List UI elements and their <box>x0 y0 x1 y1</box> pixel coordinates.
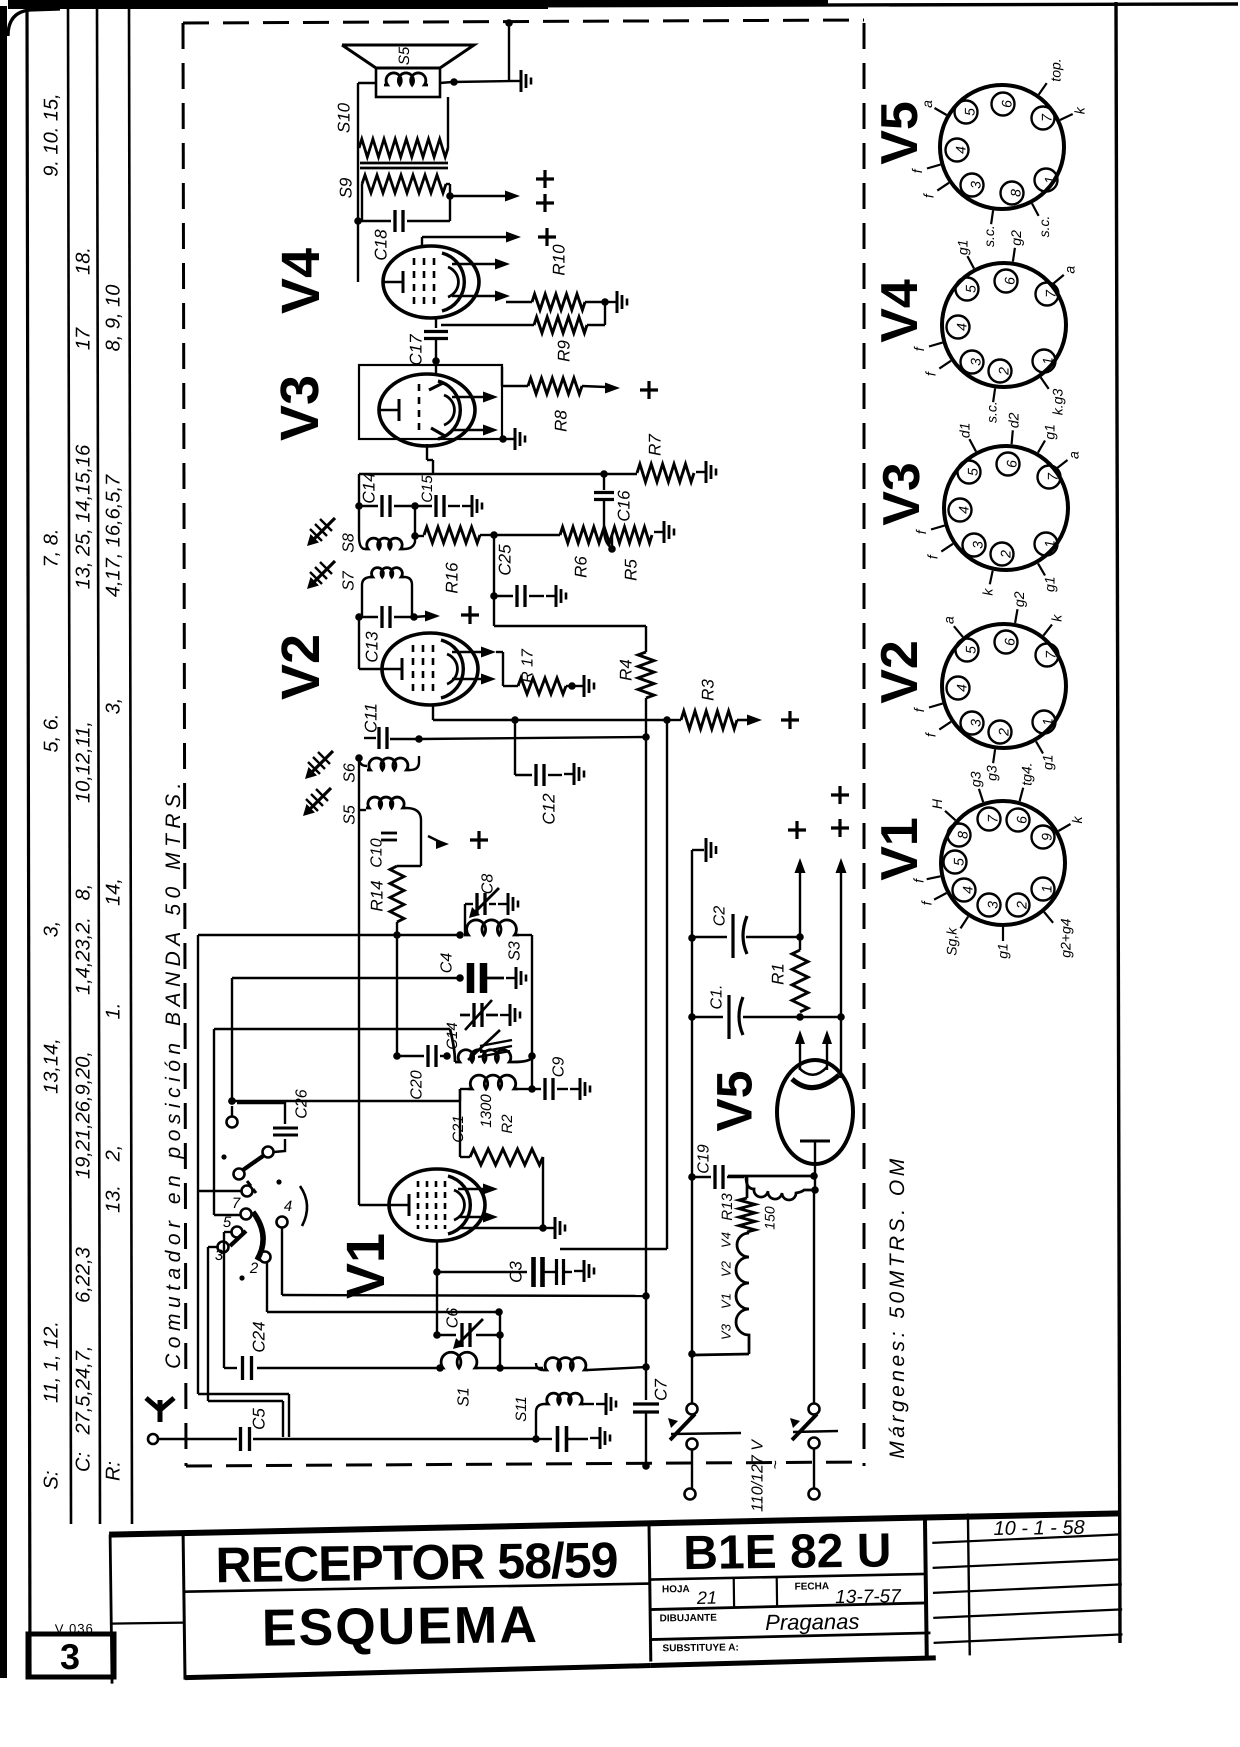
trimmer cap over S4 <box>460 1014 470 1017</box>
svg-text:1,4,23,2.: 1,4,23,2. <box>73 917 95 995</box>
ground C22 <box>590 1437 600 1439</box>
switch contact 3 <box>242 1186 253 1197</box>
svg-text:4: 4 <box>953 146 969 154</box>
svg-text:ESQUEMA: ESQUEMA <box>262 1596 540 1658</box>
arrow B+ R8 <box>605 383 620 394</box>
svg-text:2,: 2, <box>103 1145 125 1163</box>
svg-text:R13: R13 <box>719 1193 736 1221</box>
svg-text:V5: V5 <box>707 1070 763 1131</box>
svg-text:2: 2 <box>998 550 1014 559</box>
resistor R2 <box>470 1149 543 1165</box>
svg-text:C13: C13 <box>363 631 382 663</box>
band switch comutador <box>215 1089 310 1280</box>
svg-text:6: 6 <box>1002 277 1018 285</box>
ground R17 <box>574 685 584 687</box>
svg-text:C25: C25 <box>496 544 515 576</box>
svg-text:4: 4 <box>954 323 970 331</box>
svg-text:8: 8 <box>1008 189 1024 197</box>
right reference column <box>968 1513 970 1655</box>
V4 arrows to supply <box>452 263 498 266</box>
svg-text:C18: C18 <box>372 229 391 261</box>
svg-text:8, 9, 10: 8, 9, 10 <box>103 285 125 352</box>
svg-text:9: 9 <box>1039 833 1055 841</box>
mains switch 1 <box>687 1404 698 1415</box>
ground S4 trimmer <box>500 1014 510 1016</box>
svg-text:R14: R14 <box>368 880 387 911</box>
AVC wire long horizontal <box>359 473 637 475</box>
capacitor C4 <box>467 963 475 993</box>
svg-text:RECEPTOR 58/59: RECEPTOR 58/59 <box>215 1532 618 1593</box>
ground C12 <box>564 773 574 775</box>
svg-text:s.c.: s.c. <box>1036 216 1052 238</box>
svg-text:13-7-57: 13-7-57 <box>835 1586 902 1608</box>
B+ arrow left <box>799 870 801 937</box>
svg-text:Praganas: Praganas <box>765 1609 860 1635</box>
ground C3 <box>574 1270 584 1272</box>
ground C25 <box>546 595 556 597</box>
svg-text:13.: 13. <box>103 1185 125 1213</box>
svg-text:V4: V4 <box>271 248 331 314</box>
svg-text:C19: C19 <box>695 1144 712 1173</box>
svg-text:C12: C12 <box>540 793 559 825</box>
svg-text:5, 6.: 5, 6. <box>41 714 63 753</box>
wire top junction to ground <box>505 19 513 27</box>
svg-text:7: 7 <box>232 1195 241 1212</box>
svg-text:g2: g2 <box>1008 230 1024 246</box>
svg-text:C9: C9 <box>550 1057 567 1078</box>
svg-text:V2: V2 <box>271 634 331 700</box>
svg-text:21: 21 <box>696 1588 717 1608</box>
tube V1 <box>389 1169 485 1241</box>
svg-text:a: a <box>1062 266 1078 274</box>
svg-text:13,14,: 13,14, <box>41 1038 63 1094</box>
svg-text:6,22,3: 6,22,3 <box>73 1247 95 1303</box>
sheet left edge black strip <box>0 6 7 1678</box>
tube V3 <box>379 374 475 446</box>
svg-text:1.: 1. <box>103 1003 125 1020</box>
svg-text:g2: g2 <box>1011 591 1027 607</box>
arrow B+ R3 <box>747 715 762 726</box>
ground C4 <box>506 977 516 979</box>
svg-text:g3: g3 <box>983 765 999 781</box>
V3 cathode ground <box>499 435 507 443</box>
parts table column line 3 <box>129 7 132 1524</box>
trimmer arrow S7 <box>311 561 335 585</box>
arrow B+ V4 plate <box>506 232 521 243</box>
svg-text:6: 6 <box>1004 460 1020 468</box>
svg-text:C15: C15 <box>419 475 436 503</box>
scan edge artifact top <box>8 0 548 9</box>
svg-text:C7: C7 <box>652 1379 671 1401</box>
svg-text:S5: S5 <box>396 46 413 65</box>
svg-text:C24: C24 <box>250 1321 269 1352</box>
wire left of voice coil down <box>358 82 376 84</box>
svg-text:2: 2 <box>996 728 1012 737</box>
V1 cathode ground <box>460 1227 543 1229</box>
switch wiper arc <box>253 1212 263 1260</box>
B+ arrow right <box>840 870 842 1017</box>
svg-text:C20: C20 <box>408 1070 425 1099</box>
antenna symbol <box>146 1398 174 1422</box>
svg-text:110/127 V: 110/127 V <box>749 1439 766 1512</box>
iron core S4 <box>480 1040 512 1046</box>
svg-text:S6: S6 <box>341 763 358 783</box>
svg-text:C14: C14 <box>360 472 379 503</box>
title block bottom bar <box>185 1666 651 1678</box>
V5 filament <box>800 1140 830 1143</box>
capacitor C22 <box>536 1438 552 1440</box>
svg-text:k: k <box>1069 816 1085 824</box>
svg-text:5: 5 <box>963 285 979 293</box>
svg-text:SUBSTITUYE A:: SUBSTITUYE A: <box>662 1642 738 1654</box>
plus sign V4 plate <box>538 235 556 238</box>
svg-text:3,: 3, <box>41 921 63 938</box>
svg-text:g1: g1 <box>995 943 1011 959</box>
ground R10 R9 <box>607 301 617 303</box>
supply wire to R3 <box>433 719 667 721</box>
switch contact 1 <box>263 1147 274 1158</box>
svg-text:1: 1 <box>1040 357 1056 365</box>
title box receptor <box>649 1522 651 1662</box>
svg-text:11, 1, 12.: 11, 1, 12. <box>41 1321 63 1403</box>
parts table column line 2 <box>97 7 100 1524</box>
svg-text:g1: g1 <box>1040 754 1056 770</box>
speaker voice coil box <box>376 68 440 97</box>
svg-text:7, 8.: 7, 8. <box>41 529 63 568</box>
wire S9 to B+ arrow <box>450 195 508 198</box>
ground S12 <box>596 1403 606 1405</box>
svg-text:3: 3 <box>215 1247 224 1264</box>
hoja fecha row <box>650 1603 926 1610</box>
svg-text:1300: 1300 <box>478 1094 495 1128</box>
wire V4 plate to B+ arrow <box>421 237 423 247</box>
svg-text:5: 5 <box>223 1214 232 1231</box>
switch wires <box>198 1190 241 1192</box>
antenna terminal <box>148 1434 158 1444</box>
sheet border top line <box>27 4 1238 7</box>
svg-text:a: a <box>1065 451 1081 459</box>
bus vertical right B <box>645 737 647 1296</box>
svg-text:R5: R5 <box>622 559 641 581</box>
svg-text:S3: S3 <box>506 941 523 961</box>
wire grid V1 <box>232 1100 460 1102</box>
V5 anode arrows <box>799 1040 801 1070</box>
svg-text:C16: C16 <box>615 490 634 522</box>
svg-text:S1: S1 <box>455 1387 472 1407</box>
plus sign R8 <box>640 388 658 391</box>
svg-text:R4: R4 <box>617 659 636 681</box>
svg-text:1: 1 <box>1040 718 1056 726</box>
svg-text:R3: R3 <box>699 679 718 701</box>
sheet border right line <box>1116 2 1120 1643</box>
svg-text:2: 2 <box>249 1260 259 1277</box>
dibujante row <box>650 1633 930 1640</box>
svg-text:6: 6 <box>1014 816 1030 824</box>
wire to bus <box>419 737 646 739</box>
svg-text:s.c.: s.c. <box>981 225 997 247</box>
coil S12 <box>536 1404 545 1439</box>
svg-text:HOJA: HOJA <box>662 1584 690 1595</box>
trimmer arrow S6 <box>309 751 333 775</box>
wire band C <box>214 1028 450 1030</box>
svg-text:g3: g3 <box>967 771 983 787</box>
svg-text:C8: C8 <box>479 874 496 895</box>
svg-text:R10: R10 <box>550 244 569 276</box>
ground heater bus <box>692 849 704 851</box>
voice coil winding <box>384 73 428 85</box>
switch contact 4 <box>241 1209 252 1220</box>
svg-text:5: 5 <box>965 468 981 476</box>
tube V4 <box>383 246 479 318</box>
svg-text:C5: C5 <box>250 1408 269 1430</box>
arrow plus C13 <box>414 616 428 617</box>
svg-text:14,: 14, <box>103 878 125 906</box>
svg-text:5: 5 <box>962 108 978 116</box>
svg-text:k: k <box>1049 614 1065 622</box>
switch contact 2 <box>234 1169 245 1180</box>
svg-text:8: 8 <box>955 831 971 839</box>
svg-text:tg4.: tg4. <box>1018 762 1034 785</box>
mains switch 2 <box>809 1404 820 1415</box>
svg-text:R6: R6 <box>572 556 591 578</box>
ground C8 <box>498 903 508 905</box>
svg-text:V2: V2 <box>718 1260 733 1277</box>
svg-text:g1: g1 <box>1042 424 1058 440</box>
wire band A <box>198 934 460 936</box>
ground R5 <box>654 531 664 533</box>
arrow B+ top <box>505 191 520 202</box>
svg-text:R1: R1 <box>769 963 788 985</box>
ground C15 <box>462 505 472 507</box>
svg-text:13, 25, 14,15,16: 13, 25, 14,15,16 <box>73 444 95 589</box>
V2 arrows <box>452 651 484 654</box>
svg-text:g1: g1 <box>1042 576 1058 592</box>
wire V3 to AVC line <box>426 444 428 460</box>
trimmer arrow S8 <box>311 518 335 542</box>
switch index arc <box>300 1186 307 1226</box>
svg-text:150: 150 <box>762 1206 778 1230</box>
bus B down to C7 <box>645 1296 647 1400</box>
svg-text:S8: S8 <box>340 533 357 553</box>
heater bus vertical <box>691 850 693 1404</box>
svg-text:B1E 82 U: B1E 82 U <box>683 1524 892 1580</box>
svg-text:FECHA: FECHA <box>795 1581 830 1592</box>
V5 cathode line down <box>813 1190 815 1404</box>
switch wiper blade 1 <box>243 1156 263 1170</box>
svg-text:V5: V5 <box>871 101 929 165</box>
V 036 sheet number box <box>28 1634 114 1677</box>
switch contact 6 <box>218 1242 229 1253</box>
V3 arrows <box>452 396 486 399</box>
svg-text:d2: d2 <box>1005 412 1021 428</box>
svg-text:R16: R16 <box>443 562 462 594</box>
svg-text:9. 10. 15,: 9. 10. 15, <box>41 93 63 176</box>
title block top bar <box>109 1513 1121 1534</box>
svg-text:C26: C26 <box>293 1089 310 1118</box>
svg-text:C17: C17 <box>407 334 426 366</box>
tube socket V2 pin diagram <box>911 591 1066 781</box>
switch terminal <box>227 1117 238 1128</box>
svg-text:18.: 18. <box>73 247 95 275</box>
svg-text:V1: V1 <box>871 817 929 881</box>
tube V2 <box>382 633 478 705</box>
svg-text:V2: V2 <box>871 640 929 704</box>
svg-text:Márgenes: 50MTRS. OM: Márgenes: 50MTRS. OM <box>886 1155 909 1458</box>
svg-text:V3: V3 <box>270 375 330 441</box>
tube socket V3 pin diagram <box>913 412 1081 595</box>
plus signs top <box>536 177 554 180</box>
ground top right of speaker <box>511 80 521 82</box>
svg-text:27,5,24,7,: 27,5,24,7, <box>73 1346 95 1436</box>
svg-text:S10: S10 <box>335 102 354 133</box>
switch rotation ticks <box>247 1181 251 1186</box>
title block left cell lines <box>110 1535 112 1684</box>
wire V2 plate down <box>432 705 434 720</box>
svg-text:3: 3 <box>985 901 1001 909</box>
trimmer arrow S5 <box>307 788 331 812</box>
svg-text:C4: C4 <box>438 953 455 974</box>
svg-text:V4: V4 <box>871 279 929 343</box>
speaker S5 cone <box>342 45 474 68</box>
svg-text:8,: 8, <box>73 884 95 901</box>
svg-text:S11: S11 <box>513 1396 530 1422</box>
svg-text:4: 4 <box>960 886 976 894</box>
tube socket V1 pin diagram <box>911 762 1086 958</box>
svg-text:a: a <box>940 616 956 624</box>
svg-text:2: 2 <box>1014 901 1030 910</box>
svg-text:3: 3 <box>60 1636 80 1677</box>
bus vertical right A <box>666 720 668 1249</box>
svg-text:V3: V3 <box>718 1323 733 1340</box>
svg-text:H: H <box>929 798 945 809</box>
svg-text:5: 5 <box>963 646 979 654</box>
svg-text:4: 4 <box>284 1198 292 1215</box>
svg-text:S:: S: <box>41 1471 63 1490</box>
coil S4 <box>455 1050 514 1062</box>
svg-text:k: k <box>980 588 996 596</box>
svg-text:C10: C10 <box>368 838 385 867</box>
svg-text:17: 17 <box>73 327 95 350</box>
tube socket V4 pin diagram <box>911 230 1078 423</box>
switch contact 7 <box>260 1252 271 1263</box>
tube socket V5 pin diagram <box>909 58 1088 247</box>
svg-text:~: ~ <box>767 1460 784 1469</box>
svg-text:R:: R: <box>103 1461 125 1481</box>
svg-text:2: 2 <box>996 367 1012 376</box>
wire voice coil to junction <box>440 82 452 83</box>
svg-text:Comutador en posición BANDA 50: Comutador en posición BANDA 50 MTRS. <box>162 777 185 1369</box>
svg-text:7: 7 <box>985 814 1001 823</box>
svg-text:4: 4 <box>956 506 972 514</box>
wire band B <box>232 977 460 979</box>
svg-text:R9: R9 <box>555 340 574 362</box>
title esquema <box>262 1596 540 1658</box>
svg-text:C6: C6 <box>444 1308 461 1329</box>
svg-text:C:: C: <box>73 1452 95 1472</box>
svg-text:V4: V4 <box>718 1232 733 1248</box>
svg-text:C2: C2 <box>711 906 728 927</box>
svg-text:3: 3 <box>968 181 984 189</box>
svg-text:7: 7 <box>1043 289 1059 298</box>
V1 arrows <box>458 1188 486 1191</box>
svg-text:3: 3 <box>970 541 986 549</box>
rectifier V5 tube <box>777 1060 853 1164</box>
svg-text:S7: S7 <box>340 570 357 591</box>
svg-text:6: 6 <box>1002 638 1018 646</box>
switch stray dots <box>221 1154 226 1159</box>
coil S2 <box>468 1075 518 1089</box>
svg-text:g2+g4: g2+g4 <box>1058 918 1074 958</box>
bus wire band to coils <box>358 758 360 1205</box>
transformer core <box>360 162 448 165</box>
svg-text:3: 3 <box>968 358 984 366</box>
wire heater chain to bus <box>748 1350 751 1354</box>
svg-text:R7: R7 <box>646 434 665 456</box>
svg-text:10 - 1 - 58: 10 - 1 - 58 <box>993 1517 1084 1540</box>
svg-text:4: 4 <box>954 684 970 692</box>
svg-text:R2: R2 <box>499 1114 516 1134</box>
schematic dashed border <box>183 23 186 1466</box>
svg-text:5: 5 <box>951 858 967 866</box>
svg-text:V3: V3 <box>873 462 931 526</box>
svg-text:C21: C21 <box>450 1115 467 1143</box>
wire V1 plate down <box>436 1241 438 1335</box>
svg-text:3,: 3, <box>103 698 125 715</box>
svg-text:10,12,11,: 10,12,11, <box>73 721 95 803</box>
switch contact 5 <box>232 1227 243 1238</box>
ground C9 <box>570 1088 580 1090</box>
svg-text:V1: V1 <box>336 1233 396 1299</box>
svg-text:1: 1 <box>1042 176 1058 184</box>
B1E 82 U box <box>925 1516 927 1658</box>
svg-text:d1: d1 <box>956 423 972 439</box>
svg-text:3: 3 <box>968 719 984 727</box>
capacitor C17 <box>435 318 437 328</box>
svg-text:19,21,26,9,20,: 19,21,26,9,20, <box>73 1051 95 1179</box>
V3 screen box <box>359 365 502 439</box>
plus sign R3 <box>781 718 799 721</box>
ground R7 <box>696 471 706 473</box>
svg-text:k.g3: k.g3 <box>1050 389 1066 416</box>
svg-text:k: k <box>1072 106 1088 114</box>
svg-text:S5: S5 <box>341 805 358 825</box>
parts table column line 1 <box>68 7 71 1524</box>
svg-text:7: 7 <box>1039 113 1055 122</box>
svg-text:4,17, 16,6,5,7: 4,17, 16,6,5,7 <box>103 474 125 597</box>
svg-text:7: 7 <box>1045 472 1061 481</box>
svg-text:C1.: C1. <box>708 985 725 1010</box>
osc arrow plus <box>428 836 440 842</box>
svg-text:7: 7 <box>1043 650 1059 659</box>
svg-text:Sg,k: Sg,k <box>943 927 959 956</box>
bus from S3 down <box>531 935 533 1089</box>
heater chain filaments <box>736 1232 749 1350</box>
switch contact 8 <box>277 1217 288 1228</box>
svg-text:S9: S9 <box>337 177 356 198</box>
svg-text:s.c.: s.c. <box>983 401 999 423</box>
svg-text:top.: top. <box>1048 58 1064 81</box>
svg-text:6: 6 <box>999 100 1015 108</box>
svg-text:1: 1 <box>1039 885 1055 893</box>
sheet border left line <box>27 6 30 1677</box>
svg-text:1: 1 <box>1042 540 1058 548</box>
svg-text:g1: g1 <box>954 240 970 256</box>
wire C25 junction to R4 <box>493 596 495 626</box>
svg-text:V1: V1 <box>718 1293 733 1309</box>
svg-text:DIBUJANTE: DIBUJANTE <box>660 1613 718 1625</box>
svg-text:R8: R8 <box>552 410 571 432</box>
switch wiper blade 2 <box>230 1231 246 1246</box>
